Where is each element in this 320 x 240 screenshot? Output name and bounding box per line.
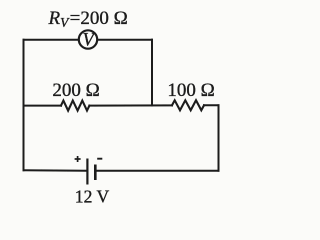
- wire: right rail: [218, 105, 220, 170]
- wire: left rail: [23, 40, 25, 171]
- voltmeter U1 circle: [79, 30, 97, 48]
- wire: top left segment to voltmeter: [24, 39, 79, 41]
- battery 12V: [87, 159, 95, 185]
- wire: top right segment from voltmeter: [98, 39, 153, 41]
- svg-text:12 V: 12 V: [75, 186, 110, 206]
- wire: middle right segment: [204, 104, 219, 106]
- wire: bottom left segment: [24, 169, 87, 171]
- resistor R 200 ohm: [61, 101, 89, 111]
- battery minus sign: [97, 158, 102, 160]
- wire: middle centre segment: [89, 104, 172, 106]
- svg-text:100 Ω: 100 Ω: [167, 80, 214, 101]
- resistor 100 ohm: [172, 100, 204, 110]
- wire: bottom right segment: [96, 170, 218, 172]
- svg-text:RV=200 Ω: RV=200 Ω: [48, 8, 128, 30]
- svg-text:200 Ω: 200 Ω: [52, 80, 99, 101]
- wire: voltmeter-branch right drop: [151, 40, 153, 106]
- wire: middle left segment: [24, 105, 62, 107]
- battery plus sign: [75, 156, 81, 162]
